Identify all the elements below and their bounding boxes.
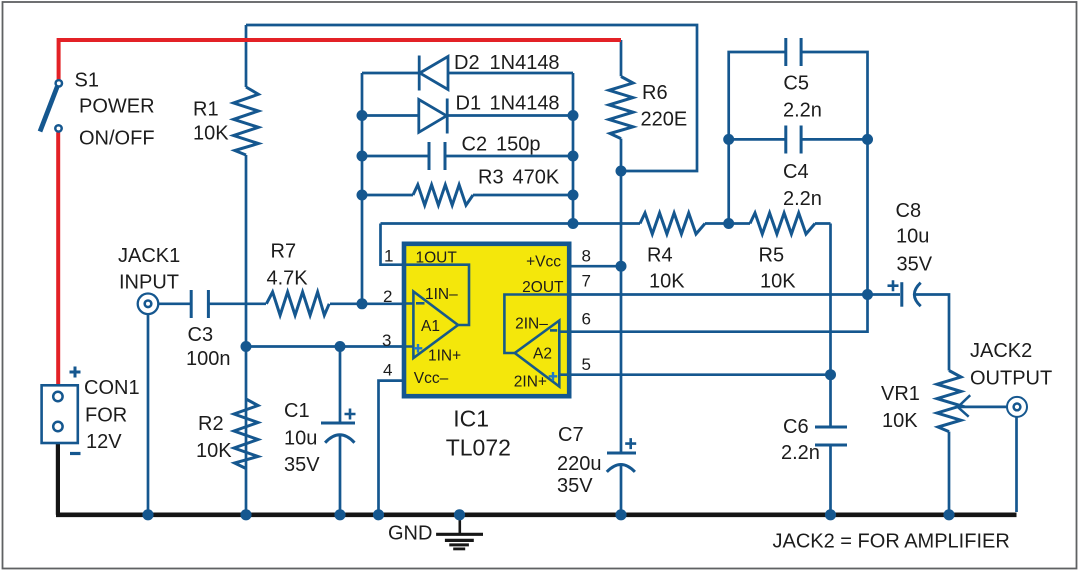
svg-text:12V: 12V [86,431,122,453]
svg-text:1: 1 [384,247,393,266]
svg-text:35V: 35V [284,454,320,476]
svg-text:6: 6 [582,310,591,329]
svg-text:7: 7 [582,272,591,291]
op-amp A2 plus mark [549,372,558,381]
svg-text:A2: A2 [533,345,552,362]
wire pin6 row up to node [569,295,868,332]
svg-text:CON1: CON1 [84,377,140,399]
svg-text:10K: 10K [196,440,232,462]
op-amp A1 plus mark [414,344,423,353]
wire R7 to pin2 [330,302,403,305]
node R1 R2 divider pin3 [241,341,252,352]
ground symbol GND [436,516,483,549]
node C4 C5 left [723,134,734,145]
capacitor C4 plates [786,126,801,154]
svg-text:220u: 220u [557,453,602,475]
op-amp A1 input stubs [403,304,413,347]
svg-text:2IN–: 2IN– [515,315,548,332]
node C1 pin3 [335,341,346,352]
svg-text:D2: D2 [454,52,480,74]
svg-text:C1: C1 [284,400,310,422]
wire C5 loop [729,52,868,139]
svg-text:1IN+: 1IN+ [428,347,461,364]
svg-text:GND: GND [388,523,432,545]
svg-text:4: 4 [383,361,392,380]
wire D1 row [362,114,573,117]
op-amp A2 input stubs [559,332,571,375]
node R4 R5 junction [723,218,734,229]
svg-text:ON/OFF: ON/OFF [79,128,155,150]
wire pin4 to rail [379,381,404,513]
svg-text:OUTPUT: OUTPUT [970,368,1052,390]
ground wire CON1 to rail [56,441,60,515]
potentiometer VR1 body [937,371,961,432]
svg-text:JACK1: JACK1 [118,245,180,267]
svg-text:C3: C3 [188,324,214,346]
svg-text:35V: 35V [557,475,593,497]
wire C8 to VR1 top [914,295,949,371]
svg-text:C6: C6 [783,416,809,438]
wire feedback right column [572,73,575,224]
diode D1 (cathode right) [419,99,447,134]
svg-text:150p: 150p [496,134,541,156]
VR1 wiper arrow [958,395,1008,417]
wire pin1 feedback link [381,224,404,265]
wire R5 to C6 column [829,224,832,428]
wire VR1 bottom to rail [948,432,951,513]
junction C6 ground [825,509,836,520]
connector CON1 [42,367,81,454]
junction jack1 ground [142,509,153,520]
CON1 minus mark [70,452,81,455]
resistor R5 [750,213,815,234]
node +Vcc pin8 [616,261,627,272]
svg-text:1N4148: 1N4148 [490,52,560,74]
CON1 plus mark [70,367,81,378]
svg-text:INPUT: INPUT [119,272,179,294]
capacitor C1 (electrolytic) [321,409,356,443]
connector jack JACK2 [1007,397,1027,417]
svg-text:2.2n: 2.2n [783,99,822,121]
node R3 right [568,190,579,201]
svg-text:100n: 100n [186,348,231,370]
svg-text:470K: 470K [513,167,560,189]
svg-text:R4: R4 [647,245,673,267]
svg-text:35V: 35V [897,254,933,276]
svg-text:C7: C7 [558,424,584,446]
svg-text:C5: C5 [783,73,809,95]
svg-text:R5: R5 [759,245,785,267]
svg-text:+Vcc: +Vcc [526,254,561,271]
wire feedback left column [361,73,364,304]
capacitor C8 (electrolytic, horizontal) [888,280,921,307]
op-amp A1 triangle [413,292,458,359]
svg-text:TL072: TL072 [446,434,511,460]
svg-text:D1: D1 [456,93,482,115]
svg-text:2IN+: 2IN+ [514,374,547,391]
node C2 left [357,151,368,162]
wire C4C5 right node down to pin7 node [866,139,869,294]
svg-text:C8: C8 [896,200,922,222]
svg-text:POWER: POWER [79,96,155,118]
junction GND symbol [454,509,465,520]
node C4 C5 right [862,134,873,145]
wire C3 to R7 [208,302,266,305]
wire pin7 node to C8 [868,293,901,296]
capacitor C6 plates [815,427,847,445]
node 2OUT C8 [862,289,873,300]
junction C1 ground [334,509,345,520]
svg-text:R1: R1 [193,99,219,121]
svg-text:1OUT: 1OUT [416,249,458,266]
svg-text:10K: 10K [760,271,796,293]
node pin2 feedback [357,298,368,309]
svg-text:R2: R2 [198,413,224,435]
capacitor C2 plates [429,142,445,170]
svg-text:VR1: VR1 [881,383,920,405]
svg-text:10u: 10u [284,428,317,450]
svg-text:R3: R3 [478,167,504,189]
svg-text:2.2n: 2.2n [781,442,820,464]
node R3 left [357,190,368,201]
capacitor C3 plates [191,290,208,318]
node D1 left [357,110,368,121]
svg-text:4.7K: 4.7K [267,268,309,290]
svg-text:2.2n: 2.2n [783,188,822,210]
svg-text:Vcc–: Vcc– [414,370,449,387]
wire D2 row [362,72,573,75]
svg-text:C4: C4 [783,161,809,183]
resistor R1 [234,87,259,155]
ground rail (black) [56,512,1017,517]
wire pin3 node to C1 [339,347,342,424]
node D1 right [568,110,579,121]
node C2 right [568,151,579,162]
wire C2 row [362,155,573,158]
junction pin4 ground [373,509,384,520]
wire pin3 row [246,345,403,348]
svg-text:S1: S1 [75,70,99,92]
svg-text:JACK2 = FOR AMPLIFIER: JACK2 = FOR AMPLIFIER [773,531,1010,553]
svg-text:220E: 220E [641,108,688,130]
wire C4 row [729,138,868,141]
node feedback to R4 row [568,218,579,229]
op-amp A1 output link to pin1 [403,265,469,325]
svg-text:3: 3 [382,331,391,350]
node R6 bottom [616,166,627,177]
diode D2 (cathode left) [419,56,448,91]
svg-text:10K: 10K [193,123,229,145]
svg-text:10u: 10u [896,226,929,248]
svg-text:R7: R7 [271,241,297,263]
wire pin7 row [569,293,868,296]
switch S1 [40,80,62,131]
svg-text:C2: C2 [462,134,488,156]
svg-text:10K: 10K [649,271,685,293]
svg-text:JACK2: JACK2 [970,340,1032,362]
junction R2 ground [240,509,251,520]
wire R4-R5 row [381,222,831,225]
resistor R6 [609,77,633,139]
svg-text:R6: R6 [642,82,668,104]
junction VR1 ground [943,509,954,520]
svg-text:FOR: FOR [85,405,127,427]
wire R1/R2 column [245,25,248,513]
wire C6 to ground rail [829,445,832,513]
svg-text:2OUT: 2OUT [522,279,564,296]
svg-text:5: 5 [582,355,591,374]
wire C4C5 node to R4R5 node [727,139,730,223]
capacitor C7 (electrolytic) [607,438,636,472]
wire R6/C7 column [620,40,623,513]
svg-text:1N4148: 1N4148 [490,93,560,115]
resistor R2 [234,399,258,469]
wire pin8 stub [569,265,622,268]
svg-text:1IN–: 1IN– [425,286,458,303]
wire pin5 row [569,373,831,376]
wire top rail R1top to R6bottom loop [246,25,697,171]
junction C7 ground [615,509,626,520]
wire R3 row [362,194,573,197]
wire jack2 to rail [1015,417,1018,513]
svg-text:8: 8 [582,247,591,266]
op-amp A2 minus mark [550,329,557,332]
op-amp A1 minus mark [416,302,425,305]
svg-text:IC1: IC1 [453,405,489,431]
resistor R7 [266,292,329,315]
resistor R4 [640,213,705,234]
svg-text:A1: A1 [421,318,440,335]
svg-text:10K: 10K [882,410,918,432]
op-amp A2 triangle [515,321,560,387]
capacitor C5 plates [786,38,801,66]
wire C1 to rail [339,436,342,513]
resistor R3 [413,185,473,205]
power wire +12V (red) [58,40,621,386]
op-amp U1 package IC1 TL072 [404,244,569,396]
op-amp A2 output link to pin7 [504,295,568,354]
node R5 C6 pin5 [825,369,836,380]
svg-text:2: 2 [383,287,392,306]
connector jack JACK1 [138,294,159,315]
wire jack1 to rail [147,314,150,513]
wire jack1 to C3 [158,302,191,305]
